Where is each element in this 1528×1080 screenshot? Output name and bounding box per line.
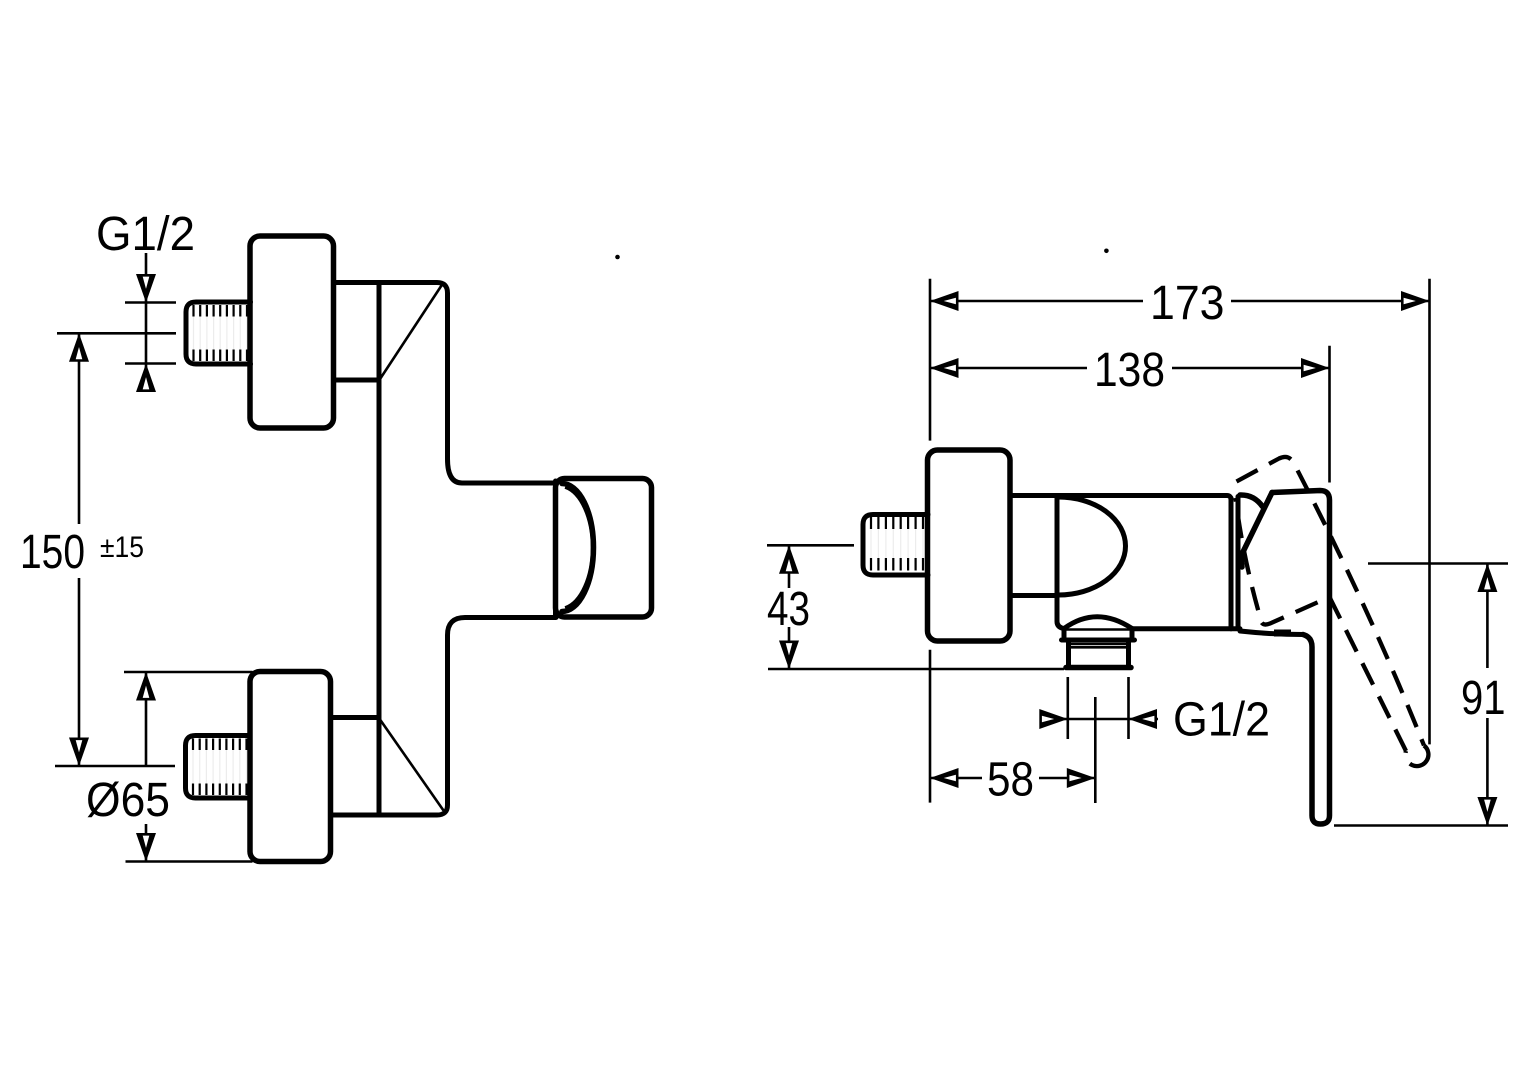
right view: handle cap dome arc — [1240, 495, 1263, 507]
right view: outlet dome base line — [1064, 628, 1132, 631]
dim G1/2 right: dimension line — [1041, 718, 1158, 721]
left view: faint thread lines of bottom inlet stub — [193, 740, 247, 793]
right view: dashed handle lever end cap — [1405, 746, 1428, 767]
left view: bottom inlet threaded stub G1/2 — [186, 736, 251, 799]
right view: neck bottom line — [1010, 593, 1057, 598]
right view: body top line — [1010, 496, 1231, 501]
right view: skirt dash blob — [1274, 630, 1291, 637]
left view: main body outline — [334, 283, 557, 484]
svg-text:Ø65: Ø65 — [86, 774, 170, 827]
right view: faint thread lines of inlet stub — [871, 520, 923, 571]
dim 150: dimension line — [78, 333, 81, 766]
svg-text:58: 58 — [987, 754, 1034, 807]
svg-text:G1/2: G1/2 — [1173, 694, 1270, 747]
right view: solid handle head + lever right edge + bottom cap — [1272, 491, 1330, 825]
dim 91: reference lines — [1334, 564, 1508, 826]
right view: body right edge (first line) — [1229, 498, 1234, 629]
dim 43: reference lines — [767, 545, 1064, 669]
right view: wall flange — [928, 450, 1011, 641]
right view: dashed handle (open position) outline — [1237, 457, 1425, 746]
right view: cartridge sleeve edge — [1057, 496, 1065, 629]
left view: bottom diagonal (flat indicator) — [380, 720, 444, 811]
dim G1/2 left: arrows — [136, 274, 156, 303]
left view: handle dome crescent (thick arc) — [562, 484, 594, 612]
right view: solid handle head left diagonal — [1241, 493, 1272, 568]
svg-text:138: 138 — [1094, 344, 1165, 397]
dim 173: dimension line — [930, 300, 1430, 303]
svg-text:150: 150 — [20, 526, 85, 579]
left view: handle end plate vertical line — [553, 481, 558, 615]
dim 58: outlet centerline — [1094, 697, 1097, 803]
right view: outlet dome — [1064, 617, 1132, 629]
left view: top wall flange (eccentric union) — [250, 236, 334, 428]
right view: cartridge dome arc — [1059, 497, 1126, 595]
left view: bottom wall flange (eccentric union) — [250, 672, 331, 862]
left view: handle end cap (rounded rect) — [556, 479, 652, 618]
svg-text:43: 43 — [767, 583, 810, 636]
right view: outlet groove lines — [1068, 644, 1129, 647]
left view: top inlet threaded stub G1/2 — [186, 302, 251, 364]
dim 173: extension lines — [930, 279, 1430, 803]
dim O65: tick lines — [124, 672, 253, 862]
svg-text:173: 173 — [1150, 277, 1225, 330]
stray dot right — [1104, 249, 1109, 254]
left view: faint thread lines of top inlet stub — [194, 307, 248, 359]
left view: body left edge — [377, 283, 382, 816]
dim 91: dimension line — [1486, 564, 1489, 826]
svg-text:±15: ±15 — [100, 531, 144, 564]
left view: top connector bottom edge — [334, 378, 380, 383]
right view: body bottom line — [1133, 626, 1240, 631]
dim 43: dimension line — [788, 545, 791, 669]
left view: top diagonal (flat indicator) — [380, 286, 442, 380]
right view: outlet nut — [1069, 642, 1129, 667]
dim G1/2 right: extension lines — [1068, 677, 1129, 739]
right view: handle skirt line — [1240, 631, 1303, 635]
dim 138: dimension line — [930, 367, 1330, 370]
right view: dashed handle lever left edge and head bottom — [1236, 498, 1407, 751]
right view: inlet threaded stub G1/2 — [863, 515, 928, 576]
dim G1/2 left: vertical line + ticks — [125, 253, 176, 392]
dim 150: reference lines — [55, 333, 176, 766]
left view: handle dome crescent (thin arc) — [565, 488, 592, 608]
dim 138: extension line right — [1328, 346, 1331, 483]
right view: outlet collar — [1062, 629, 1135, 640]
dim 58: dimension line — [930, 777, 1095, 780]
left view: bottom connector top edge — [331, 715, 380, 720]
svg-text:91: 91 — [1461, 672, 1506, 725]
stray dot left — [615, 255, 620, 260]
right view: cartridge end plate (second line) — [1236, 497, 1241, 629]
dim O65: dimension line — [145, 672, 148, 862]
